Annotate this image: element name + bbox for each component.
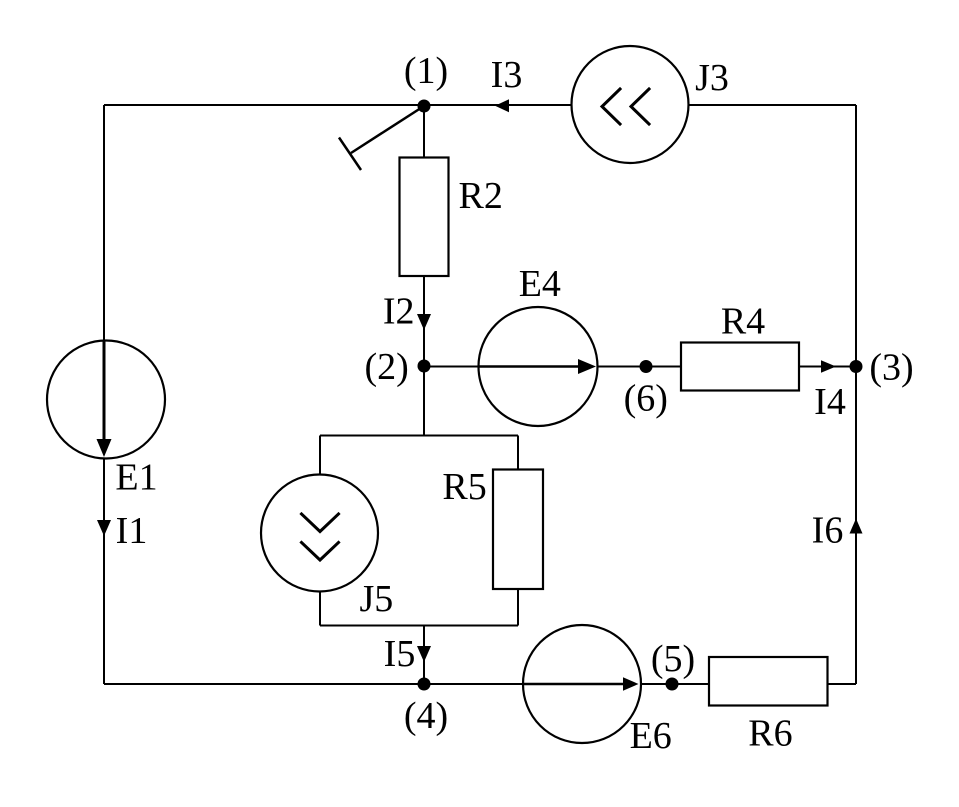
svg-text:R4: R4 bbox=[721, 301, 765, 343]
current arrow I2 bbox=[417, 314, 431, 330]
resistor R4 bbox=[681, 343, 799, 391]
resistor R2 bbox=[400, 158, 449, 277]
voltage source E6 bbox=[523, 625, 641, 743]
svg-text:(6): (6) bbox=[624, 378, 668, 420]
node 5 junction dot bbox=[666, 678, 679, 691]
wire left side: top-left corner through E1 down to bottom-left corner bbox=[103, 105, 105, 684]
node 4 junction dot bbox=[418, 678, 431, 691]
wire R5 bottom to bottom bracket bbox=[517, 589, 519, 626]
wire J5 bottom to bottom bracket bbox=[319, 591, 321, 626]
current source J3 bbox=[572, 46, 689, 163]
svg-text:J3: J3 bbox=[695, 57, 729, 99]
J3 double chevron bbox=[602, 89, 649, 124]
svg-text:(1): (1) bbox=[404, 50, 448, 92]
svg-text:(5): (5) bbox=[651, 638, 695, 680]
wire R2 bottom to node 2 bbox=[423, 276, 425, 366]
current arrow I5 bbox=[417, 646, 431, 662]
svg-text:(3): (3) bbox=[869, 347, 913, 389]
svg-text:(4): (4) bbox=[404, 695, 448, 737]
svg-text:R2: R2 bbox=[459, 175, 503, 217]
node 3 junction dot bbox=[850, 360, 863, 373]
svg-text:I2: I2 bbox=[383, 291, 415, 333]
wire node 1 down to R2 bbox=[423, 106, 425, 158]
node 1 junction dot bbox=[418, 100, 431, 113]
E1 arrowhead bbox=[97, 439, 112, 457]
svg-text:E6: E6 bbox=[630, 715, 672, 757]
svg-text:I1: I1 bbox=[116, 510, 148, 552]
node 2 junction dot bbox=[418, 360, 431, 373]
current arrow I4 bbox=[821, 360, 836, 372]
resistor R5 bbox=[493, 470, 543, 590]
voltage source E1 bbox=[47, 341, 165, 459]
wire bottom bracket of parallel branch bbox=[320, 625, 518, 627]
J5 double chevron bbox=[302, 514, 339, 560]
E6 arrowhead bbox=[623, 677, 639, 690]
svg-text:J5: J5 bbox=[360, 578, 394, 620]
voltage source E4 bbox=[479, 307, 598, 426]
wire R4 right terminal to node 3 bbox=[799, 366, 856, 368]
current arrow I3 bbox=[495, 99, 509, 112]
wire R6 right terminal to bottom-right corner bbox=[828, 683, 857, 685]
E6 arrow shaft bbox=[523, 683, 626, 685]
wire bottom: left corner through node 4, E6, node 5 to R6 bbox=[104, 683, 709, 685]
svg-text:R6: R6 bbox=[748, 713, 792, 755]
wire node 2 down to parallel branch bbox=[423, 366, 425, 436]
wire node 1 to J3 left terminal bbox=[424, 104, 572, 106]
svg-text:(2): (2) bbox=[364, 346, 408, 388]
wire top-left: node 1 to left corner bbox=[104, 104, 424, 106]
wire right side: top-right corner through node 3 to bottom-right corner bbox=[855, 105, 857, 684]
wire top bracket of parallel branch bbox=[320, 435, 518, 437]
E4 arrow shaft bbox=[479, 365, 583, 367]
wire node 2 through E4 to node 6 and R4 bbox=[424, 366, 681, 368]
resistor R6 bbox=[709, 657, 828, 706]
svg-text:R5: R5 bbox=[442, 466, 486, 508]
current arrow I1 bbox=[97, 520, 111, 536]
node 6 junction dot bbox=[640, 360, 653, 373]
svg-text:E4: E4 bbox=[519, 263, 561, 305]
wire top bracket down to R5 bbox=[517, 436, 519, 471]
current source J5 bbox=[261, 475, 378, 592]
svg-text:I6: I6 bbox=[812, 510, 844, 552]
wire J3 right terminal to top-right corner bbox=[688, 104, 856, 106]
svg-text:I3: I3 bbox=[491, 54, 523, 96]
svg-text:I4: I4 bbox=[814, 381, 846, 423]
E4 arrowhead bbox=[578, 359, 596, 374]
switch stroke mark at node 1 bbox=[339, 106, 424, 170]
E1 arrow shaft bbox=[103, 340, 106, 444]
svg-text:I5: I5 bbox=[384, 633, 416, 675]
wire top bracket down to J5 bbox=[319, 436, 321, 476]
svg-text:E1: E1 bbox=[115, 457, 157, 499]
current arrow I6 bbox=[850, 519, 863, 534]
wire bottom bracket down to node 4 bbox=[423, 626, 425, 685]
